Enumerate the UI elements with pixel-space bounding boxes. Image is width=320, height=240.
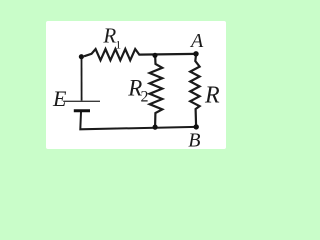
resistor R2 branch bbox=[150, 57, 163, 127]
node dot bottom-middle junction bbox=[153, 125, 158, 130]
node A dot bbox=[193, 51, 198, 56]
svg-text:B: B bbox=[188, 130, 200, 152]
svg-text:E: E bbox=[52, 86, 67, 111]
white card bbox=[46, 21, 226, 149]
resistor R branch bbox=[190, 55, 199, 127]
battery E long plate bbox=[63, 100, 100, 102]
node B dot bbox=[194, 124, 199, 129]
wire top with resistor R1 bbox=[84, 49, 196, 60]
svg-text:A: A bbox=[189, 30, 204, 52]
wire left (bottom) and bottom wire bbox=[80, 112, 196, 129]
wire left (top) bbox=[81, 57, 83, 101]
battery E short plate bbox=[74, 109, 90, 112]
node dot top-left bbox=[79, 54, 84, 59]
svg-text:1: 1 bbox=[115, 37, 121, 51]
svg-text:2: 2 bbox=[141, 89, 149, 106]
svg-text:R: R bbox=[204, 83, 220, 109]
node dot top-middle junction bbox=[152, 53, 157, 58]
